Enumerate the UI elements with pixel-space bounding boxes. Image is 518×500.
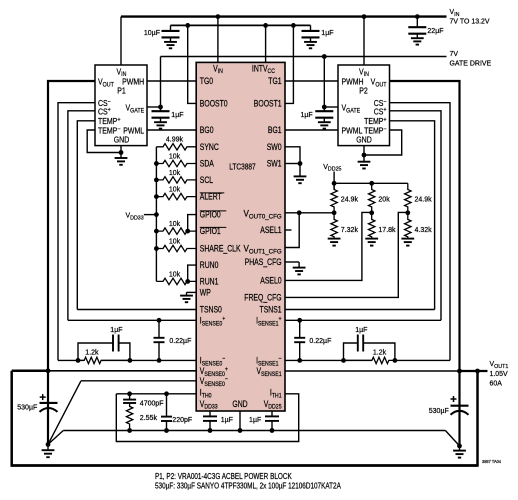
wire P2 TEMP- to P2 GND (364, 130, 402, 155)
junction P2 VGATE (322, 105, 327, 110)
svg-text:RUN0: RUN0 (200, 260, 219, 270)
svg-text:7.32k: 7.32k (341, 225, 359, 234)
ground 17.8k (365, 238, 378, 240)
svg-text:10k: 10k (169, 151, 181, 160)
junction ground rail / GND pin (238, 428, 243, 433)
svg-text:10k: 10k (169, 184, 181, 193)
svg-text:10k: 10k (169, 236, 181, 245)
capacitor 220pF compensation (166, 394, 168, 417)
wire ISENSE0- line (101, 359, 196, 361)
resistor 10k GPIO1 pull-up (156, 228, 196, 234)
svg-text:22µF: 22µF (427, 26, 444, 35)
wire P2 TEMP+ sense (390, 121, 435, 310)
svg-text:FREQ_CFG: FREQ_CFG (244, 293, 281, 303)
svg-text:SYNC: SYNC (200, 142, 219, 152)
capacitor 0.22uF ISENSE0 filter (158, 320, 160, 338)
svg-text:SHARE_CLK: SHARE_CLK (200, 244, 241, 254)
svg-text:7V TO 13.2V: 7V TO 13.2V (449, 16, 489, 25)
svg-text:SW0: SW0 (267, 142, 282, 152)
wire TG1 to P2 PWMH (285, 80, 338, 82)
resistor 17.8k ASEL0 lower (369, 213, 375, 239)
svg-text:1µF: 1µF (110, 325, 123, 334)
svg-text:GND: GND (232, 399, 247, 409)
junction VDD33 bus / GPIO1 (154, 229, 159, 234)
capacitor 1uF VDD25 (271, 411, 273, 416)
svg-text:TG1: TG1 (268, 76, 281, 86)
svg-text:220pF: 220pF (172, 415, 192, 424)
svg-text:4700pF: 4700pF (140, 398, 164, 407)
resistor 10k RUN1 pull-up (156, 278, 196, 284)
junction ISENSE1+ / 0.22uF (297, 318, 302, 323)
svg-text:1.2k: 1.2k (85, 347, 99, 356)
junction ISENSE1- / 0.22uF (297, 358, 302, 363)
wire VDD25 stem (333, 172, 335, 190)
junction ISENSE0+ / 0.22uF (157, 318, 162, 323)
wire VSENSE0- to output cap ground (81, 380, 196, 382)
svg-text:1.2k: 1.2k (373, 347, 387, 356)
junction ISENSE0- filter left (76, 358, 81, 363)
wire TSNS0 (77, 309, 196, 311)
svg-text:1µF: 1µF (249, 415, 262, 424)
wire VDD33 to bus (144, 214, 157, 216)
junction INTVCC rail / BOOST1 (291, 23, 296, 28)
svg-text:P1, P2: VRA001-4C3G ACBEL POWE: P1, P2: VRA001-4C3G ACBEL POWER BLOCK (155, 472, 292, 481)
svg-text:4.32k: 4.32k (415, 225, 433, 234)
node VDD25 rail (334, 182, 408, 184)
svg-text:GND: GND (356, 135, 372, 145)
junction ground rail / VDD25 1uF (270, 428, 275, 433)
node VDD33 pull-up bus (155, 147, 157, 282)
svg-text:24.9k: 24.9k (341, 194, 359, 203)
resistor 4.99k SYNC pull-up (156, 144, 196, 150)
capacitor 22uF VIN bypass (416, 17, 418, 28)
resistor 10k SHARE_CLK pull-up (156, 245, 196, 251)
svg-text:1.05V: 1.05V (489, 369, 507, 378)
svg-text:10k: 10k (169, 219, 181, 228)
junction VIN rail / LTC3887 VIN (216, 14, 221, 19)
svg-text:SW1: SW1 (267, 159, 282, 169)
svg-text:ASEL0: ASEL0 (260, 276, 282, 286)
junction VDD33 bus / VDD33 (154, 212, 159, 217)
svg-text:GATE DRIVE: GATE DRIVE (449, 58, 491, 67)
junction ground rail / 2.55k (127, 428, 132, 433)
junction VOUT1 rail / ring right (475, 369, 480, 374)
ground PHAS_CFG (298, 262, 300, 268)
svg-text:PHAS_CFG: PHAS_CFG (245, 257, 282, 267)
resistor 1.2k ISENSE0 filter (78, 357, 130, 363)
svg-text:SCL: SCL (200, 175, 214, 185)
wire ASEL1 stub (285, 229, 292, 231)
svg-text:GND: GND (114, 135, 130, 145)
resistor 1.2k ISENSE1 filter (344, 357, 395, 363)
wire SW1 (285, 163, 300, 165)
junction ISENSE0- filter right (127, 358, 132, 363)
svg-text:1µF: 1µF (321, 28, 334, 37)
node VOUT1 output rail left (12, 370, 48, 373)
svg-text:0.22µF: 0.22µF (309, 336, 332, 345)
wire ground rail diagonal right (445, 431, 459, 446)
wire TSNS1 (285, 309, 435, 311)
resistor 24.9k FREQ_CFG upper (405, 183, 411, 213)
ground SW0 SW1 (299, 164, 301, 177)
node INTVCC rail (171, 24, 311, 26)
junction INTVCC rail / BOOST0 (185, 23, 190, 28)
wire P2 CS+ sense (390, 111, 442, 320)
ground P2 GND (363, 146, 365, 162)
svg-text:TSNS1: TSNS1 (260, 305, 282, 315)
wire BG0 to P1 PWML (147, 129, 196, 131)
ground 530uF right (457, 444, 462, 449)
wire ISENSE0+ (68, 319, 196, 321)
junction VDD25 rail / 20k (369, 181, 374, 186)
junction ground rail / 220pF (164, 428, 169, 433)
svg-text:TG0: TG0 (200, 76, 214, 86)
junction VDD25 rail / 24.9k (332, 181, 337, 186)
ground WP (187, 291, 197, 293)
svg-text:TSNS0: TSNS0 (200, 305, 223, 315)
junction SW0-SW1 (298, 161, 303, 166)
wire FREQ_CFG (285, 212, 408, 297)
svg-text:ASEL1: ASEL1 (260, 225, 281, 235)
svg-text:P1: P1 (117, 86, 126, 96)
junction VDD33 bus / SHARE_CLK (154, 246, 159, 251)
wire VOUT1_CFG branch (285, 213, 299, 248)
wire P1 VGATE (147, 106, 161, 108)
svg-text:PWMH: PWMH (122, 77, 144, 87)
wire P1 VIN stem (120, 17, 122, 65)
ground 4.32k (401, 238, 414, 240)
svg-text:0.22µF: 0.22µF (169, 336, 192, 345)
capacitor 1uF P1 VGATE bypass (160, 107, 162, 111)
node 7V gate drive rail (161, 56, 447, 58)
svg-text:10k: 10k (169, 168, 181, 177)
wire output ring left vertical (10, 371, 13, 466)
resistor 2.55k compensation (126, 403, 132, 431)
wire ISENSE1- line (285, 359, 372, 361)
junction ISENSE1- filter right (393, 358, 398, 363)
junction VOUT0_CFG divider (332, 210, 337, 215)
wire P2 VGATE (324, 106, 338, 108)
wire P2 VOUT to output rail (390, 81, 460, 371)
svg-text:BG0: BG0 (200, 125, 214, 135)
junction ground rail / VDD33 1uF (208, 428, 213, 433)
wire LTC3887 VIN pin stem (217, 17, 219, 63)
resistor 20k ASEL0 upper (369, 183, 375, 213)
svg-text:17.8k: 17.8k (378, 225, 396, 234)
wire TG0 to P1 PWMH (147, 80, 196, 82)
capacitor 1uF ISENSE1 filter (344, 343, 358, 360)
wire VOUT0_CFG (285, 212, 334, 214)
svg-text:4.99k: 4.99k (166, 134, 184, 143)
svg-text:530µF: 530µF (17, 402, 38, 411)
junction VDD33 bus / SCL (154, 178, 159, 183)
capacitor 1uF INTVCC bypass (310, 25, 312, 31)
svg-text:RUN1: RUN1 (200, 277, 219, 287)
wire output ring bottom (11, 464, 479, 467)
svg-text:BOOST0: BOOST0 (200, 99, 228, 109)
svg-text:P2: P2 (359, 86, 368, 96)
node VIN rail 7V TO 13.2V (121, 15, 447, 17)
junction P1 VGATE (158, 105, 163, 110)
wire RUN0 to RUN1 (188, 265, 197, 281)
wire PHAS_CFG (285, 261, 299, 263)
wire GPIO0 to GPIO1 (188, 215, 197, 232)
junction VIN rail / P2 VIN (362, 14, 367, 19)
wire BOOST0 to INTVCC rail (188, 25, 197, 103)
module P1 power block VRA001-4C3G (95, 65, 147, 146)
junction FREQ_CFG divider (405, 210, 410, 215)
wire BG1 to P2 PWML (285, 129, 338, 131)
svg-text:1µF: 1µF (221, 415, 234, 424)
capacitor 1uF ISENSE0 filter (78, 343, 113, 360)
wire P1 TEMP+ sense (77, 121, 95, 310)
junction ITH0 / 4700pF (127, 391, 132, 396)
resistor 10k ALERT pull-up (156, 193, 196, 199)
capacitor 10uF input bypass (170, 25, 172, 31)
junction VDD33 bus / ALERT (154, 194, 159, 199)
capacitor 0.22uF ISENSE1 filter (299, 320, 301, 338)
wire P1 TEMP- to P1 GND (87, 130, 121, 153)
svg-text:2.55k: 2.55k (140, 413, 158, 422)
capacitor 530uF output left (47, 371, 49, 403)
svg-text:BG1: BG1 (268, 125, 282, 135)
junction ITH0 / 220pF (164, 391, 169, 396)
wire P1 CS+ sense (68, 111, 95, 320)
svg-text:24.9k: 24.9k (415, 194, 433, 203)
svg-text:530µF: 530µF (429, 406, 450, 415)
junction VOUT1 rail / 530uF right (457, 369, 462, 374)
wire ground rail diagonal left (48, 431, 63, 445)
svg-text:10k: 10k (169, 269, 181, 278)
resistor 7.32k VOUT0_CFG lower (331, 213, 337, 239)
svg-text:20k: 20k (378, 194, 390, 203)
junction ASEL0 divider (369, 210, 374, 215)
wire P1 VGATE to gate drive rail (160, 57, 162, 108)
junction ISENSE0- / 0.22uF (157, 358, 162, 363)
wire output ring right vertical (476, 371, 479, 466)
svg-text:3887 TA04: 3887 TA04 (482, 459, 502, 464)
wire ITH0 line (116, 393, 196, 395)
resistor 10k SCL pull-up (156, 177, 196, 183)
module P2 power block VRA001-4C3G (338, 65, 390, 146)
junction VOUT1 rail / 530uF left (46, 368, 51, 373)
svg-text:PWMH: PWMH (341, 77, 363, 87)
capacitor 4700pF compensation (129, 394, 131, 400)
wire ASEL0 (285, 212, 372, 280)
junction RUN0-RUN1 (185, 279, 190, 284)
capacitor 1uF VDD33 (209, 411, 211, 416)
svg-text:1µF: 1µF (301, 110, 314, 119)
ground 530uF left (46, 442, 51, 447)
resistor 4.32k FREQ_CFG lower (405, 213, 411, 239)
wire P1 VOUT to output rail (48, 81, 95, 371)
svg-text:SDA: SDA (200, 159, 215, 169)
wire INTVCC pin stem (265, 25, 267, 62)
wire P2 CS- sense (390, 103, 451, 361)
svg-text:60A: 60A (489, 378, 502, 387)
junction VOUT0_CFG / VOUT1_CFG (297, 210, 302, 215)
resistor 10k SDA pull-up (156, 160, 196, 166)
junction VIN rail / 22uF (415, 14, 420, 19)
wire ISENSE1+ (285, 319, 441, 321)
capacitor 1uF P2 VGATE bypass (323, 107, 325, 111)
junction ISENSE1- filter left (341, 358, 346, 363)
wire BOOST1 to INTVCC rail (285, 25, 293, 103)
wire P1 CS- sense (58, 103, 95, 361)
svg-text:1µF: 1µF (355, 325, 368, 334)
svg-text:BOOST1: BOOST1 (254, 99, 282, 109)
wire ITH0 to ITH1 link (116, 394, 298, 442)
svg-text:7V: 7V (449, 49, 458, 58)
resistor 24.9k VOUT0_CFG upper (331, 183, 337, 213)
junction INTVCC rail / INTVCC pin (263, 23, 268, 28)
wire P2 VGATE to gate drive rail (323, 57, 325, 108)
wire SW0 to SW1 (285, 147, 300, 164)
junction gate rail / P2 VGATE (322, 54, 327, 59)
junction VDD33 bus / SDA (154, 161, 159, 166)
wire LTC3887 GND stem (239, 411, 241, 431)
IC U1 LTC3887 power system manager (196, 62, 285, 411)
wire P2 VIN stem (363, 17, 365, 65)
ground P1 GND (120, 146, 122, 158)
svg-text:WP: WP (200, 288, 211, 298)
ground 7.32k (328, 238, 341, 240)
svg-text:10µF: 10µF (144, 28, 161, 37)
svg-text:1µF: 1µF (171, 110, 184, 119)
capacitor 530uF output right (458, 371, 460, 406)
svg-text:530µF: 330µF SANYO 4TPF330ML,: 530µF: 330µF SANYO 4TPF330ML, 2x 100µF 1… (155, 482, 341, 491)
svg-text:LTC3887: LTC3887 (229, 162, 255, 172)
node VOUT1 output rail right (285, 370, 460, 372)
junction GPIO0-GPIO1 (185, 229, 190, 234)
node analog ground rail (63, 430, 445, 432)
